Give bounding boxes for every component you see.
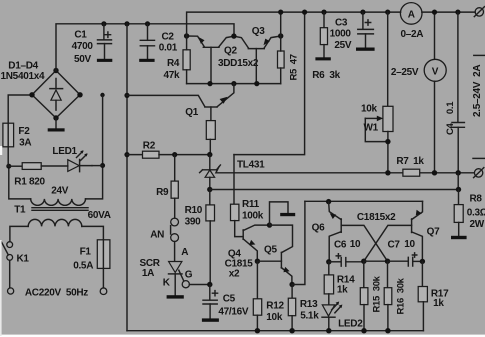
fuse F1	[97, 240, 110, 269]
switch K1	[2, 242, 13, 261]
transformer T1 secondary winding	[31, 199, 86, 205]
svg-text:3DD15x2: 3DD15x2	[218, 58, 259, 69]
node: C4 on emitter bus	[455, 10, 460, 15]
node: R13 on bottom rail	[289, 328, 294, 333]
svg-text:V: V	[432, 66, 439, 77]
resistor R13	[288, 285, 295, 331]
resistor R9	[171, 155, 178, 219]
wire: between cap nodes	[364, 260, 388, 262]
svg-text:R16 30k: R16 30k	[395, 277, 406, 314]
node: R15 top	[361, 259, 366, 264]
svg-text:10: 10	[404, 239, 415, 250]
wire: F2 to bridge left vertex	[8, 95, 32, 166]
svg-text:0.3Ω: 0.3Ω	[467, 207, 485, 218]
node: Q2/Q3 collectors	[231, 33, 236, 38]
wire: anode rail y189	[210, 189, 459, 191]
resistor R11	[231, 155, 243, 237]
ground: SCR cathode	[167, 295, 184, 298]
node: Q1 emitter on bus	[231, 81, 236, 86]
wire: bridge top to +rail, rail A across top	[56, 24, 234, 71]
ground: C5	[202, 318, 219, 321]
label plus dash	[474, 54, 485, 56]
node: Q2 emitter	[184, 33, 189, 38]
svg-text:R1 820: R1 820	[14, 176, 45, 187]
ammeter A	[400, 3, 422, 25]
svg-text:2.5–24V 2A: 2.5–24V 2A	[472, 65, 483, 117]
svg-text:C5: C5	[223, 293, 236, 304]
svg-text:R9: R9	[156, 187, 169, 198]
node: C3 on emitter bus	[360, 10, 365, 15]
transistor Q7	[364, 201, 423, 261]
svg-text:Q6: Q6	[312, 222, 325, 233]
capacitor C5	[203, 285, 218, 319]
svg-text:390: 390	[185, 217, 202, 228]
node: R6 on emitter bus	[321, 10, 326, 15]
LED LED1	[41, 150, 92, 171]
resistor R4	[183, 36, 190, 84]
wire: secondary left to R1/F2 node	[9, 166, 31, 199]
svg-text:R6 3k: R6 3k	[312, 70, 340, 81]
resistor R16	[384, 261, 392, 331]
ground: R6	[315, 57, 330, 60]
svg-text:1N5401x4: 1N5401x4	[1, 71, 45, 82]
capacitor C6	[329, 254, 364, 267]
node: Q3 base on bus	[254, 81, 259, 86]
svg-text:1k: 1k	[413, 156, 424, 167]
svg-text:0.5A: 0.5A	[73, 261, 93, 272]
wire: multivibrator emitter line	[305, 200, 423, 202]
svg-text:LED1: LED1	[52, 146, 77, 157]
node: V meter on emitter bus	[432, 10, 437, 15]
svg-text:50V: 50V	[74, 54, 92, 65]
capacitor C7	[388, 253, 423, 266]
wire: Q4 collector node to ground hook	[270, 202, 289, 225]
wire: output sense from emitter-bus node down and left	[234, 12, 305, 155]
node: Q1 collector junction	[124, 93, 129, 98]
node: x127 line on rail A	[124, 21, 129, 26]
node: Q3 emitter	[278, 33, 283, 38]
wire: T1 primary right to F1	[82, 226, 104, 239]
svg-text:R8: R8	[470, 193, 483, 204]
wire: TL431 ref line to right (output minus rail)	[216, 167, 474, 173]
wire: R13 node to multivibrator feed riser	[292, 201, 305, 284]
svg-text:60VA: 60VA	[88, 210, 111, 221]
ground: C2	[139, 59, 154, 62]
svg-text:F1: F1	[80, 247, 92, 258]
wire: emitter bus over the top	[187, 12, 476, 36]
svg-text:C2: C2	[162, 32, 175, 43]
svg-text:0.01: 0.01	[159, 43, 178, 54]
svg-text:R11: R11	[242, 199, 260, 210]
svg-text:25V: 25V	[334, 40, 352, 51]
node: Q4 emitter / Q5 base / R12 top	[255, 259, 260, 264]
terminal AC left	[8, 288, 14, 294]
node: Q6 collector / C6 / R14	[326, 259, 331, 264]
svg-text:2–25V: 2–25V	[391, 67, 419, 78]
node: bridge right corner blob	[100, 93, 104, 97]
svg-text:R10: R10	[185, 205, 203, 216]
transistor Q1	[127, 84, 234, 121]
node: F2/R1 junction	[6, 164, 11, 169]
svg-text:A: A	[181, 247, 188, 258]
wire: gate to C5 node	[189, 284, 209, 286]
svg-text:K1: K1	[17, 254, 30, 265]
svg-text:1k: 1k	[337, 285, 348, 296]
resistor R5	[278, 36, 285, 84]
transistor Q6	[329, 202, 388, 262]
resistor R6	[320, 12, 327, 57]
transistor Q4	[243, 225, 269, 261]
transistor Q2	[187, 36, 234, 84]
node: Q3 emitter riser on bus	[278, 10, 283, 15]
IC TL431	[200, 155, 221, 190]
node: C2 on rail A	[145, 21, 150, 26]
svg-text:R15 30k: R15 30k	[372, 275, 383, 312]
node: W1 on minus line	[385, 170, 390, 175]
svg-text:G: G	[185, 270, 193, 281]
node: R2 junction	[124, 152, 129, 157]
bridge rectifier D1-D4	[29, 68, 82, 121]
transformer T1 primary winding	[28, 219, 82, 226]
label minus dash	[473, 157, 485, 159]
capacitor C2	[140, 24, 154, 59]
thyristor SCR	[169, 242, 184, 296]
capacitor C1	[98, 24, 112, 59]
terminal output minus	[474, 168, 484, 178]
resistor R14	[324, 262, 333, 304]
resistor R10	[206, 190, 215, 285]
terminal output plus	[474, 7, 484, 17]
svg-text:C6: C6	[334, 240, 347, 251]
svg-text:0–2A: 0–2A	[401, 29, 424, 40]
capacitor C3	[358, 12, 374, 47]
pushbutton AN	[171, 218, 179, 241]
svg-text:R13: R13	[300, 299, 318, 310]
node: R16 on bottom rail	[385, 328, 390, 333]
node: C4/R8 riser on minus line	[456, 170, 461, 175]
node: W1 wiper/bottom	[385, 139, 390, 144]
svg-text:2W: 2W	[470, 219, 485, 230]
svg-text:1A: 1A	[142, 268, 154, 279]
wire: F1 to AC right terminal	[102, 268, 104, 288]
terminal AC right	[100, 288, 107, 295]
resistor R8	[454, 190, 463, 236]
voltmeter V	[424, 12, 446, 173]
svg-text:T1: T1	[14, 205, 26, 216]
resistor R17	[418, 261, 427, 330]
svg-text:1k: 1k	[433, 298, 444, 309]
svg-text:TL431: TL431	[237, 160, 265, 171]
potentiometer W1	[365, 12, 393, 173]
white page edge bottom	[0, 335, 485, 337]
node: V meter on minus line	[432, 170, 437, 175]
svg-text:47k: 47k	[164, 70, 181, 81]
node: TL431 anode	[207, 187, 212, 192]
svg-text:D1–D4: D1–D4	[8, 60, 38, 71]
fuse F2	[3, 123, 14, 147]
node: Q7 collector / C7 / R17	[420, 259, 425, 264]
resistor below Q1	[206, 121, 215, 155]
svg-text:100k: 100k	[242, 211, 264, 222]
node: sense node on emitter bus	[302, 10, 307, 15]
wire: bridge bottom to ground	[55, 118, 57, 128]
svg-text:Q1: Q1	[185, 107, 198, 118]
resistor R12	[253, 261, 261, 331]
wire: base bus of Q2/Q3	[187, 83, 281, 85]
svg-text:R12: R12	[266, 300, 284, 311]
node: Q6 emitter on line	[326, 199, 331, 204]
svg-text:Q7: Q7	[427, 226, 440, 237]
transistor Q5	[257, 252, 292, 284]
svg-text:LED2: LED2	[338, 319, 363, 330]
node: LED1 cathode junction	[100, 163, 105, 168]
svg-text:F2: F2	[18, 126, 30, 137]
svg-text:R7: R7	[396, 156, 409, 167]
svg-text:R5 47: R5 47	[289, 54, 300, 80]
transformer T1 core	[32, 208, 88, 211]
svg-text:Q3: Q3	[252, 26, 265, 37]
svg-text:W1: W1	[364, 122, 379, 133]
svg-text:Q2: Q2	[224, 45, 237, 56]
ground: bridge	[48, 128, 65, 131]
svg-text:1000: 1000	[330, 29, 352, 40]
svg-text:24V: 24V	[51, 186, 69, 197]
svg-text:C4 0.1: C4 0.1	[445, 101, 456, 135]
node: R16 top	[385, 259, 390, 264]
ground: C3	[356, 48, 375, 51]
node: R8 top on anode rail	[456, 187, 461, 192]
node: LED2 on bottom rail	[326, 328, 331, 333]
gate terminal circle	[182, 281, 189, 288]
svg-text:C1: C1	[74, 30, 87, 41]
svg-text:10: 10	[350, 239, 361, 250]
transistor Q3	[234, 36, 281, 84]
wire: riser to anode rail	[457, 173, 459, 190]
node: Q2 base on bus	[207, 81, 212, 86]
capacitor C4	[452, 12, 464, 173]
wire: AC left terminal to K1	[9, 261, 11, 288]
resistor R15	[360, 261, 368, 331]
wire: bottom rail	[127, 330, 423, 332]
svg-text:C3: C3	[335, 18, 348, 29]
svg-text:R2: R2	[143, 141, 156, 152]
resistor R2	[127, 151, 210, 158]
svg-text:Q5: Q5	[264, 244, 277, 255]
ground: R8	[451, 236, 467, 239]
wire: x127 bus from rail A to bottom rail	[126, 24, 128, 331]
resistor R1	[9, 163, 41, 170]
wire: K1 to T1 primary left	[10, 226, 28, 241]
white page edge left	[0, 146, 2, 155]
node: C1 on rail A	[101, 21, 106, 26]
ground: C1	[97, 59, 112, 62]
wire: Q3 emitter riser	[280, 12, 282, 36]
svg-text:3A: 3A	[19, 138, 31, 149]
resistor R7	[403, 169, 420, 176]
node: W1 on emitter bus	[385, 10, 390, 15]
svg-text:AN: AN	[150, 230, 164, 241]
node: R12 on bottom rail	[255, 328, 260, 333]
svg-text:K: K	[163, 277, 171, 288]
svg-text:5.1k: 5.1k	[300, 311, 319, 322]
node: Q5 emitter / R13 top	[289, 282, 294, 287]
node: R9 top	[172, 152, 177, 157]
wire: Q5 collector to node	[270, 225, 293, 253]
wire: secondary right up to LED1 node	[86, 95, 103, 199]
svg-text:AC220V 50Hz: AC220V 50Hz	[25, 287, 88, 298]
svg-text:A: A	[408, 9, 415, 20]
svg-text:R4: R4	[167, 58, 180, 69]
svg-text:C1815x2: C1815x2	[357, 212, 396, 223]
svg-text:10k: 10k	[266, 312, 283, 323]
svg-text:x2: x2	[229, 269, 240, 280]
LED LED2	[322, 302, 342, 331]
ground: Q4/Q5 collector	[280, 213, 295, 216]
node: R15 on bottom rail	[361, 328, 366, 333]
node: C5/gate/R10	[207, 282, 212, 287]
svg-text:10k: 10k	[361, 104, 378, 115]
node: Q4 collector junction	[267, 222, 272, 227]
node: TL431 cathode	[207, 152, 212, 157]
svg-text:C7: C7	[388, 239, 401, 250]
svg-text:47/16V: 47/16V	[218, 306, 249, 317]
svg-text:4700: 4700	[72, 41, 94, 52]
